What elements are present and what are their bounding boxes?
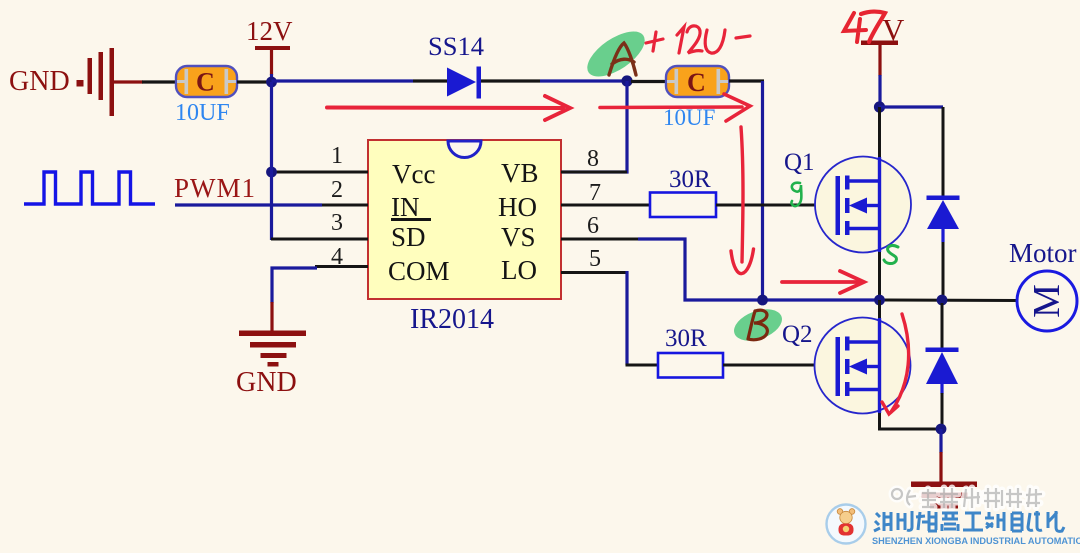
pin 8 wire (VB) <box>561 171 627 174</box>
ground symbol (bottom right) <box>911 482 977 509</box>
svg-text:Q1: Q1 <box>784 149 815 176</box>
IC U1 IR2014 body <box>368 140 561 299</box>
wire 47V to junction <box>878 75 881 103</box>
wire diode to node A (dark segment) <box>481 79 540 82</box>
svg-text:C: C <box>687 68 706 97</box>
resistor R1 30R <box>650 193 716 218</box>
annotation red arrow 2 (toward bootstrap) <box>600 94 750 121</box>
svg-text:PWM1: PWM1 <box>174 173 256 203</box>
wire LO to R2 (vertical) <box>625 271 628 365</box>
watermark company name (Chinese, fake glyph strokes) <box>874 511 1064 531</box>
wire VS to node B <box>638 239 762 300</box>
faint gray watermark text halo <box>892 488 1042 508</box>
svg-text:Q2: Q2 <box>782 321 813 348</box>
wire node A down to pin 8 (VB) <box>562 81 627 172</box>
wire Q2 drain from node B <box>878 300 881 318</box>
wire segment before diode (dark) <box>413 79 448 82</box>
motor M1 <box>1017 271 1077 331</box>
pin 6 wire (VS) <box>561 238 640 241</box>
annotation red arrow 3 (node B to Q2) <box>782 271 864 293</box>
handwritten B (node B) <box>748 310 767 340</box>
svg-text:3: 3 <box>331 210 343 236</box>
handwritten S (green, Q1 source) <box>884 246 898 264</box>
pin 5 wire (LO) <box>561 271 627 274</box>
svg-text:4: 4 <box>331 244 343 270</box>
handwritten A (node A) <box>609 43 636 75</box>
wire Q1 source down to node B rail <box>878 252 881 300</box>
svg-text:IR2014: IR2014 <box>410 304 494 335</box>
pin 1 wire (Vcc) <box>274 171 368 174</box>
wire LO to R2 (horizontal) <box>626 364 660 367</box>
wire ground to C1 (dark red segment) <box>113 80 143 83</box>
junction Vcc/12V vertical <box>266 167 277 178</box>
junction 12V rail <box>266 77 277 88</box>
wire 12V junction to diode (blue part) <box>272 79 414 82</box>
IC notch <box>448 141 481 158</box>
pin 2 wire (IN) <box>320 204 368 207</box>
capacitor C1 <box>176 66 237 97</box>
node B rail wire (VS / phase) <box>762 298 879 301</box>
svg-text:VS: VS <box>501 222 536 252</box>
wire C1 to 12V junction <box>237 80 268 83</box>
svg-text:2: 2 <box>331 177 343 203</box>
watermark logo (bear) <box>827 505 866 544</box>
junction Q2 source / D3 anode <box>936 424 947 435</box>
svg-text:30R: 30R <box>665 325 707 352</box>
wire junction down (blue) <box>939 429 942 453</box>
annotation red arrow 1 (12V rail current) <box>327 96 570 120</box>
resistor R2 30R <box>658 353 723 378</box>
handwritten 7 (red) <box>861 12 885 42</box>
net wire PWM1 <box>175 203 322 206</box>
junction node B at bootstrap <box>757 295 768 306</box>
annotation handwritten + 12U - (red) <box>646 26 750 53</box>
annotation red curve (through Q2) <box>882 314 909 414</box>
ground symbol GND (below COM) <box>239 331 306 367</box>
handwritten g (green, Q1 gate) <box>791 183 801 206</box>
faint gray watermark text <box>892 488 1042 508</box>
wire to ground (dark red) <box>270 302 273 332</box>
svg-text:10UF: 10UF <box>175 100 230 126</box>
ground symbol GND (top left) <box>77 48 115 116</box>
highlight blob node B (green) <box>730 303 787 346</box>
svg-text:LO: LO <box>501 255 537 285</box>
wire node A to C2 <box>631 80 667 83</box>
diode D2 (freewheel, upper) <box>927 107 960 297</box>
wire bootstrap vertical to node B rail <box>761 81 764 300</box>
wire junction to D1 top <box>879 105 943 108</box>
svg-text:Vcc: Vcc <box>392 159 435 189</box>
transistor Q2 (N-MOSFET) <box>815 318 911 414</box>
svg-text:1: 1 <box>331 143 343 169</box>
wire R2 to Q2 gate <box>723 364 838 367</box>
node A junction dot <box>621 75 632 86</box>
junction Q1 source / Q2 drain <box>874 295 885 306</box>
wire C1 left lead <box>142 80 177 83</box>
pin 4 wire (COM) <box>315 265 368 268</box>
svg-text:HO: HO <box>498 192 537 222</box>
wire C2 to bootstrap vertical <box>729 79 764 82</box>
svg-text:GND: GND <box>9 66 70 97</box>
svg-text:COM: COM <box>388 256 450 286</box>
svg-text:7: 7 <box>589 180 601 206</box>
wire to node A (blue segment) <box>540 79 627 82</box>
wire phase to motor <box>879 299 1017 303</box>
svg-text:SS14: SS14 <box>428 31 484 61</box>
svg-text:C: C <box>196 68 215 97</box>
wire COM to ground (blue) <box>272 268 317 303</box>
svg-text:5: 5 <box>589 246 601 272</box>
pin 3 wire (SD) <box>271 238 368 241</box>
svg-text:VB: VB <box>501 158 539 188</box>
svg-text:IN: IN <box>391 192 420 222</box>
svg-text:6: 6 <box>587 213 599 239</box>
wire HO to R1 already drawn; wire R1 to Q1 gate <box>716 204 838 207</box>
svg-text:30R: 30R <box>669 166 711 193</box>
pin 7 wire (HO) <box>561 204 651 207</box>
svg-text:12V: 12V <box>246 16 293 46</box>
PWM square wave <box>24 172 155 204</box>
capacitor C2 <box>666 66 729 97</box>
junction 47V rail <box>874 101 885 112</box>
wire to bottom ground (dark red) <box>939 452 942 482</box>
wire Q2 source down and right <box>880 413 943 429</box>
svg-text:SD: SD <box>391 222 426 252</box>
handwritten 4 (red) <box>844 13 866 42</box>
svg-text:Motor: Motor <box>1009 238 1077 268</box>
svg-text:M: M <box>1026 284 1068 318</box>
annotation red arrow down (bootstrap current) <box>731 127 754 274</box>
junction D1 anode <box>937 295 948 306</box>
diode D3 (freewheel, lower) <box>926 303 959 429</box>
svg-text:SHENZHEN XIONGBA INDUSTRIAL AU: SHENZHEN XIONGBA INDUSTRIAL AUTOMATION <box>872 536 1080 546</box>
svg-text:GND: GND <box>236 367 297 398</box>
wire 47V junction down to Q1 drain <box>878 107 881 157</box>
highlight blob node A (green) <box>580 23 652 86</box>
svg-text:8: 8 <box>587 146 599 172</box>
wire 12V bar to junction <box>270 74 273 82</box>
transistor Q1 (N-MOSFET) <box>815 157 911 253</box>
diode D1 SS14 <box>447 67 481 99</box>
wire 12V rail down to SD <box>270 82 273 240</box>
overline of SD <box>391 218 431 221</box>
